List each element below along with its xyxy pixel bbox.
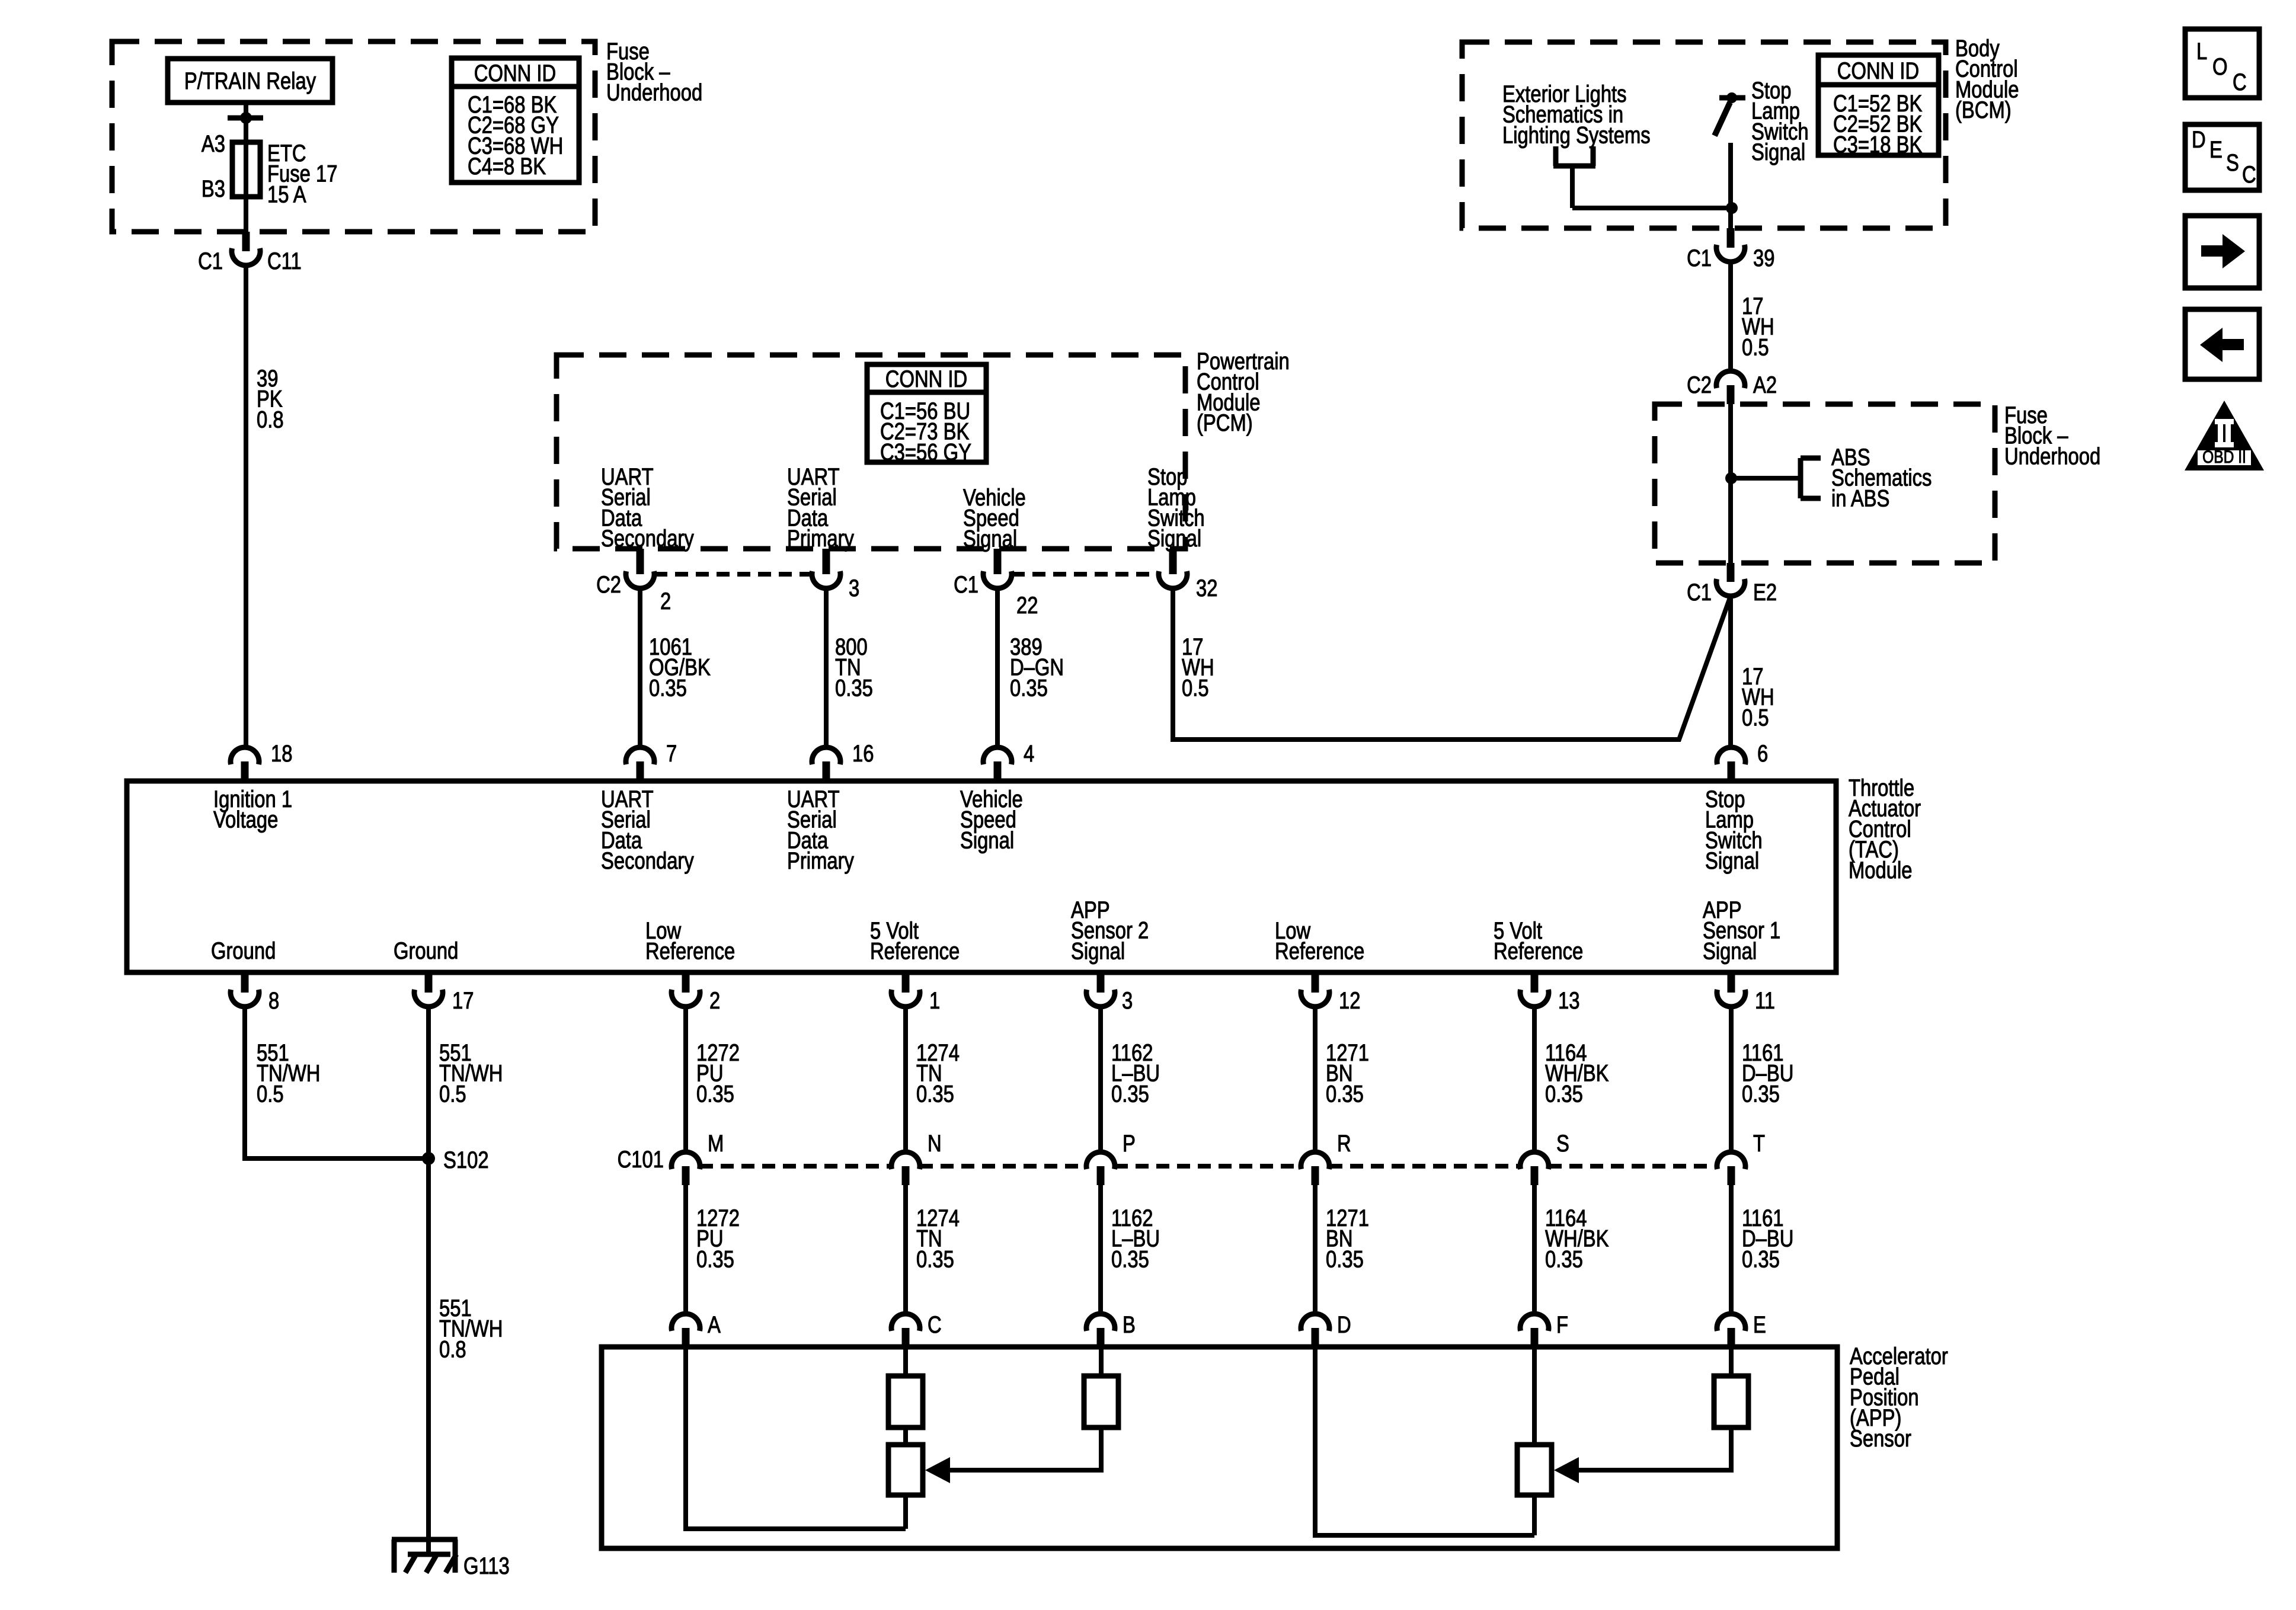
TAC top pin 4 <box>994 761 1002 781</box>
svg-text:C1=52 BKC2=52 BKC3=18 BK: C1=52 BKC2=52 BKC3=18 BK <box>1833 90 1922 158</box>
svg-text:O: O <box>2212 53 2228 80</box>
connector C2 / A2 <box>1727 385 1735 404</box>
svg-text:CONN ID: CONN ID <box>885 366 967 392</box>
C101 cavity N <box>902 1166 910 1185</box>
TAC bottom pin 2 <box>682 972 690 993</box>
TAC bottom pin 11 <box>1728 972 1735 993</box>
fuse block underhood (left) dashed box <box>112 41 595 232</box>
svg-text:2: 2 <box>709 987 720 1014</box>
wire 1164 WH/BK 0.35 (lower) <box>1532 1185 1537 1314</box>
TAC bottom pin 17 <box>425 972 433 993</box>
fuse block underhood (right) dashed box <box>1655 404 1995 563</box>
CONN ID table (BCM) <box>1818 55 1939 155</box>
svg-text:T: T <box>1753 1130 1765 1157</box>
wire 800 TN 0.35 <box>824 588 829 747</box>
wire 551 TN/WH 0.5 (pin 17) <box>426 1007 431 1554</box>
wire through fuse block <box>1728 404 1733 563</box>
svg-text:7: 7 <box>666 740 677 767</box>
TAC top pin 16 <box>823 761 830 781</box>
TAC bottom pin 1 <box>902 972 910 993</box>
wire pin D to potentiometer 2 <box>1315 1347 1534 1535</box>
svg-text:CONN ID: CONN ID <box>474 60 556 87</box>
svg-text:C101: C101 <box>618 1146 664 1173</box>
svg-text:B: B <box>1123 1311 1136 1338</box>
svg-text:4: 4 <box>1024 740 1034 767</box>
C101 cavity M <box>682 1166 690 1185</box>
wire bracket to switch node <box>1572 206 1732 210</box>
svg-text:Ground: Ground <box>211 937 276 964</box>
CONN ID table (fuse block left) <box>452 58 579 183</box>
svg-text:C1: C1 <box>1687 579 1712 606</box>
wire 1162 L–BU 0.35 (upper) <box>1098 1007 1103 1152</box>
P/TRAIN Relay box <box>168 59 332 103</box>
svg-text:OBD II: OBD II <box>2202 447 2246 467</box>
C101 cavity R <box>1312 1166 1319 1185</box>
accelerator pedal position (APP) sensor box <box>602 1347 1837 1548</box>
svg-text:A3: A3 <box>202 130 225 157</box>
svg-text:1: 1 <box>929 987 940 1014</box>
svg-text:CONN ID: CONN ID <box>1837 57 1919 84</box>
APP2 wiper arrow <box>1578 1427 1731 1470</box>
ABS tap junction <box>1725 472 1737 484</box>
APP sensor pin F <box>1531 1328 1539 1347</box>
svg-text:A: A <box>708 1311 721 1338</box>
svg-text:P/TRAIN Relay: P/TRAIN Relay <box>184 68 316 94</box>
svg-text:17: 17 <box>452 987 474 1014</box>
C101 cavity S <box>1531 1166 1539 1185</box>
ground G113 <box>392 1537 458 1542</box>
APP1 resistor (pin C) <box>903 1347 908 1376</box>
svg-text:S: S <box>2226 149 2239 176</box>
APP1 potentiometer <box>903 1427 908 1445</box>
svg-text:D: D <box>1337 1311 1351 1338</box>
svg-text:13: 13 <box>1558 987 1579 1014</box>
svg-text:S: S <box>1556 1130 1569 1157</box>
APP sensor pin E <box>1728 1328 1735 1347</box>
svg-text:39: 39 <box>1753 245 1774 271</box>
wire 1161 D–BU 0.35 (lower) <box>1729 1185 1734 1314</box>
wire 1061 OG/BK 0.35 <box>638 588 642 747</box>
svg-text:N: N <box>928 1130 942 1157</box>
svg-text:C11: C11 <box>267 248 302 274</box>
svg-text:11: 11 <box>1755 987 1775 1014</box>
svg-text:3: 3 <box>849 575 859 601</box>
svg-text:2: 2 <box>660 588 671 614</box>
connector C1 / C11 <box>242 232 250 251</box>
svg-text:32: 32 <box>1196 575 1217 601</box>
dashed link N-P <box>920 1164 1086 1169</box>
fuse ETC Fuse 17 15A <box>244 145 248 197</box>
TAC bottom pin 13 <box>1531 972 1539 993</box>
wire 17 WH 0.5 to TAC pin 6 <box>1728 596 1733 747</box>
svg-text:D: D <box>2192 126 2206 153</box>
svg-text:ThrottleActuatorControl(TAC)Mo: ThrottleActuatorControl(TAC)Module <box>1849 774 1921 884</box>
relay contact bar and junction <box>228 116 263 121</box>
svg-text:C: C <box>928 1311 942 1338</box>
svg-text:C1=56 BUC2=73 BKC3=56 GY: C1=56 BUC2=73 BKC3=56 GY <box>880 398 971 465</box>
svg-text:18: 18 <box>271 740 292 767</box>
connector C1 / E2 <box>1727 563 1735 582</box>
dashed link P-R <box>1115 1164 1301 1169</box>
wire 1271 BN 0.35 (lower) <box>1313 1185 1318 1314</box>
wire 1271 BN 0.35 (upper) <box>1313 1007 1318 1152</box>
svg-text:C1: C1 <box>954 571 978 598</box>
APP1 wiper arrow <box>948 1427 1101 1470</box>
icon LOC box <box>2185 29 2259 98</box>
svg-text:12: 12 <box>1339 987 1360 1014</box>
ABS bracket <box>1798 458 1803 498</box>
wire 551 TN/WH 0.5 (pin 8) <box>245 1007 428 1158</box>
C101 cavity T <box>1728 1166 1735 1185</box>
svg-text:R: R <box>1337 1130 1351 1157</box>
svg-text:6: 6 <box>1757 740 1768 767</box>
TAC bottom pin 12 <box>1312 972 1319 993</box>
svg-text:16: 16 <box>852 740 874 767</box>
powertrain control module (PCM) dashed box <box>557 355 1185 549</box>
svg-text:VehicleSpeedSignal: VehicleSpeedSignal <box>963 484 1026 552</box>
svg-text:S102: S102 <box>443 1147 489 1173</box>
svg-text:B3: B3 <box>202 175 225 202</box>
svg-text:C: C <box>2242 161 2256 188</box>
wire 1161 D–BU 0.35 (upper) <box>1729 1007 1734 1152</box>
body control module (BCM) dashed box <box>1462 42 1946 228</box>
icon OBD II triangle <box>2185 401 2264 470</box>
wire 1272 PU 0.35 (upper) <box>683 1007 688 1152</box>
exterior lights bracket <box>1553 146 1559 166</box>
PCM connector pin 3 <box>823 549 830 574</box>
wire 17 WH 0.5 (BCM to fuse block) <box>1728 262 1733 371</box>
wire 1274 TN 0.35 (upper) <box>903 1007 908 1152</box>
dashed link S-T <box>1549 1164 1717 1169</box>
svg-text:C1: C1 <box>1687 245 1712 271</box>
svg-text:C: C <box>2233 69 2247 95</box>
svg-text:VehicleSpeedSignal: VehicleSpeedSignal <box>960 786 1023 853</box>
splice S102 <box>422 1152 435 1165</box>
svg-text:22: 22 <box>1016 592 1038 619</box>
svg-text:E: E <box>2209 136 2223 163</box>
APP2 series resistor (pin E) <box>1729 1347 1734 1376</box>
svg-text:P: P <box>1123 1130 1136 1157</box>
TAC top pin 18 <box>241 761 249 781</box>
stop lamp switch <box>1719 95 1745 101</box>
APP sensor pin D <box>1312 1328 1319 1347</box>
wire 39 PK 0.8 <box>244 265 248 747</box>
PCM connector pin 32 <box>1169 549 1177 574</box>
dashed link M-N <box>700 1164 891 1169</box>
APP sensor pin B <box>1097 1328 1105 1347</box>
PCM connector C1 pin 22 <box>994 549 1002 574</box>
wire 1272 PU 0.35 (lower) <box>683 1185 688 1314</box>
svg-text:F: F <box>1556 1311 1568 1338</box>
svg-text:M: M <box>708 1130 724 1157</box>
TAC top pin 6 <box>1728 761 1735 781</box>
wire fuse to box edge <box>244 197 248 232</box>
icon left arrow box <box>2185 309 2259 379</box>
svg-text:Ground: Ground <box>394 937 458 964</box>
throttle actuator control (TAC) module box <box>127 781 1836 972</box>
dashed link R-S <box>1329 1164 1520 1169</box>
svg-text:G113: G113 <box>463 1553 510 1579</box>
TAC bottom pin 8 <box>241 972 249 993</box>
svg-text:C1: C1 <box>198 248 223 274</box>
wire 1162 L–BU 0.35 (lower) <box>1098 1185 1103 1314</box>
wire 17 WH 0.5 from PCM pin 32 <box>1173 588 1731 740</box>
APP sensor pin A <box>682 1328 690 1347</box>
wire 1164 WH/BK 0.35 (upper) <box>1532 1007 1537 1152</box>
svg-text:A2: A2 <box>1753 372 1777 398</box>
wire relay to contact bar <box>244 103 248 118</box>
dashed connector link pin22-pin32 <box>1012 572 1159 577</box>
CONN ID table (PCM) <box>867 364 986 462</box>
wire 389 D-GN 0.35 <box>995 588 1000 747</box>
APP2 potentiometer (pin F) <box>1532 1347 1537 1445</box>
APP1 series resistor (pin B) <box>1099 1347 1104 1376</box>
svg-text:E2: E2 <box>1753 579 1777 606</box>
icon DESC box <box>2185 124 2259 190</box>
dashed connector link pin2-pin3 <box>654 572 812 577</box>
wire contact to fuse <box>244 118 248 145</box>
wire pin A to potentiometer <box>686 1347 906 1529</box>
svg-text:L: L <box>2196 38 2207 65</box>
wire 1274 TN 0.35 (lower) <box>903 1185 908 1314</box>
BCM connector C1 pin 39 <box>1727 228 1735 248</box>
svg-text:8: 8 <box>268 987 279 1014</box>
icon right arrow box <box>2185 216 2259 288</box>
svg-text:E: E <box>1753 1311 1766 1338</box>
svg-text:3: 3 <box>1122 987 1133 1014</box>
APP sensor pin C <box>902 1328 910 1347</box>
TAC bottom pin 3 <box>1097 972 1105 993</box>
svg-text:C2: C2 <box>596 571 621 598</box>
TAC top pin 7 <box>637 761 644 781</box>
C101 cavity P <box>1097 1166 1105 1185</box>
PCM connector C2 pin 2 <box>637 549 644 574</box>
svg-text:C2: C2 <box>1687 372 1712 398</box>
